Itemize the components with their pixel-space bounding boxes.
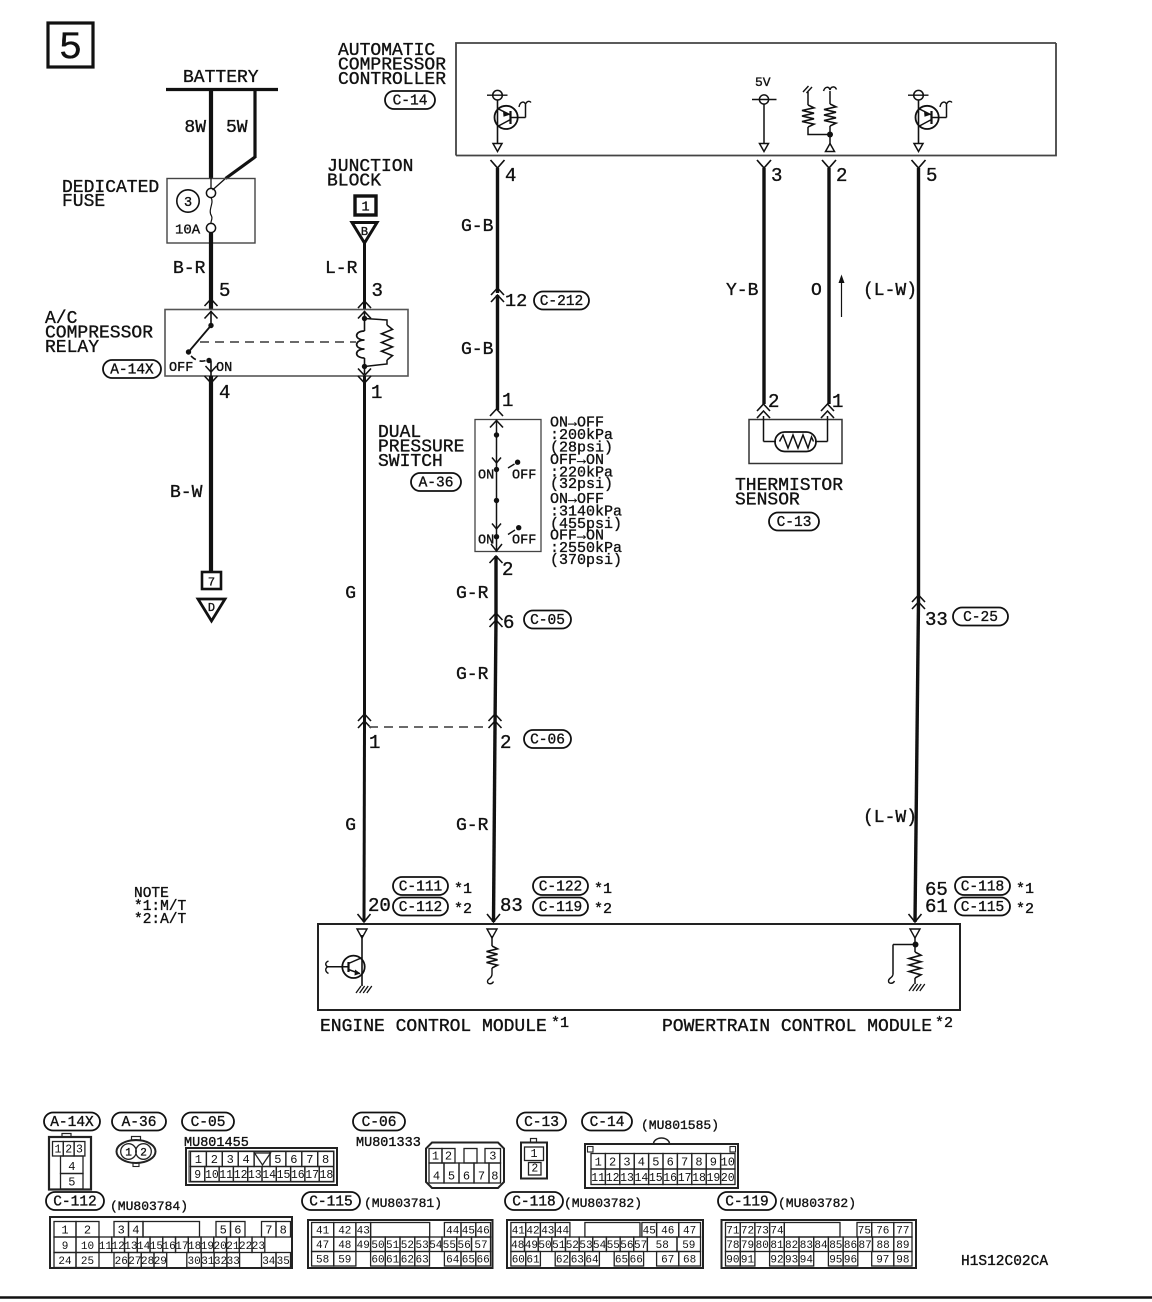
svg-text:8W: 8W	[184, 118, 206, 138]
svg-text:*1: *1	[551, 1015, 569, 1032]
controller pin 3	[757, 160, 782, 187]
svg-text:BLOCK: BLOCK	[327, 172, 381, 192]
svg-text:C-119: C-119	[539, 900, 583, 916]
svg-text:G-B: G-B	[461, 340, 494, 360]
svg-text:72: 72	[741, 1226, 754, 1238]
svg-text:6: 6	[463, 1170, 470, 1184]
svg-text:13: 13	[620, 1172, 634, 1185]
svg-text:2: 2	[445, 1150, 452, 1164]
svg-text:59: 59	[682, 1240, 695, 1252]
svg-text:4: 4	[242, 1153, 249, 1167]
legend C-13 connector	[521, 1139, 547, 1179]
svg-text:1: 1	[61, 1224, 68, 1238]
svg-text:C-06: C-06	[530, 733, 565, 749]
svg-text:78: 78	[726, 1240, 739, 1252]
svg-text:5: 5	[59, 26, 82, 70]
svg-text:53: 53	[579, 1240, 592, 1252]
svg-text:G-R: G-R	[456, 584, 489, 604]
legend C-14 connector	[585, 1138, 738, 1188]
A/C compressor relay A-14X	[45, 309, 153, 358]
svg-text:10: 10	[81, 1241, 94, 1253]
legend A-36 connector	[117, 1137, 156, 1167]
svg-text:12: 12	[234, 1169, 248, 1182]
svg-text:43: 43	[541, 1226, 554, 1238]
svg-text:B: B	[361, 225, 368, 239]
svg-text:3: 3	[76, 1144, 83, 1157]
svg-text:9: 9	[194, 1169, 201, 1182]
svg-text:61: 61	[526, 1255, 540, 1267]
svg-text:B-R: B-R	[173, 259, 206, 279]
svg-text:2: 2	[500, 732, 511, 754]
svg-text:5: 5	[219, 280, 230, 302]
svg-text:G-R: G-R	[456, 665, 489, 685]
svg-text:C-212: C-212	[540, 294, 584, 310]
svg-text:50: 50	[538, 1240, 551, 1252]
svg-text:30: 30	[187, 1256, 200, 1268]
ECM pin triangle (65/61)	[910, 929, 920, 938]
svg-text:20: 20	[368, 895, 391, 917]
svg-text:SENSOR: SENSOR	[735, 491, 800, 511]
svg-text:51: 51	[386, 1240, 400, 1252]
svg-text:13: 13	[248, 1169, 262, 1182]
svg-text:7: 7	[681, 1156, 688, 1170]
svg-text:15: 15	[150, 1241, 163, 1253]
controller output transistor (pin 4 driver)	[487, 90, 531, 151]
svg-text:57: 57	[474, 1240, 487, 1252]
ECM input resistor (pin 83)	[487, 936, 498, 984]
svg-text:54: 54	[429, 1240, 443, 1252]
relay box	[165, 310, 408, 377]
svg-text:13: 13	[124, 1241, 137, 1253]
svg-text:45: 45	[462, 1226, 475, 1238]
svg-text:6: 6	[667, 1156, 674, 1170]
thermistor sensor C-13	[749, 416, 842, 464]
svg-text:C-25: C-25	[963, 610, 998, 626]
legend C-06 connector	[426, 1143, 504, 1189]
svg-text:(L-W): (L-W)	[863, 281, 917, 301]
svg-text:3: 3	[372, 280, 383, 302]
svg-text:1: 1	[432, 1150, 439, 1164]
svg-text:82: 82	[785, 1240, 798, 1252]
svg-text:O: O	[811, 281, 822, 301]
svg-text:*2:A/T: *2:A/T	[134, 912, 187, 928]
connector label C-115 *2	[955, 898, 1034, 919]
node 1 on wire G (C-06 related)	[358, 714, 380, 754]
svg-text:58: 58	[316, 1255, 329, 1267]
legend C-05 part number	[184, 1136, 249, 1151]
svg-text:9: 9	[62, 1241, 69, 1253]
label C-13	[769, 513, 819, 532]
svg-text:C-05: C-05	[191, 1115, 226, 1131]
svg-text:2: 2	[768, 391, 779, 413]
svg-text:OFF: OFF	[169, 361, 193, 376]
svg-text:5: 5	[652, 1156, 659, 1170]
wire G relay to ECM pin 20	[345, 376, 364, 727]
controller pin 4	[491, 160, 517, 187]
svg-text:C-119: C-119	[725, 1195, 769, 1211]
svg-text:87: 87	[858, 1240, 871, 1252]
svg-text:ON: ON	[478, 534, 494, 549]
svg-text:ON: ON	[478, 469, 494, 484]
svg-text:5V: 5V	[755, 75, 771, 90]
svg-text:1: 1	[361, 201, 369, 216]
bottom border	[0, 1296, 1152, 1299]
svg-text:(370psi): (370psi)	[550, 552, 622, 569]
svg-text:51: 51	[552, 1240, 566, 1252]
wire B-W relay to ground	[170, 376, 211, 572]
svg-text:8: 8	[322, 1153, 329, 1167]
svg-text:50: 50	[371, 1240, 384, 1252]
svg-text:ENGINE CONTROL MODULE: ENGINE CONTROL MODULE	[320, 1017, 547, 1037]
svg-text:95: 95	[829, 1255, 842, 1267]
thermistor pin 1	[821, 391, 843, 418]
svg-text:49: 49	[525, 1240, 538, 1252]
svg-text:59: 59	[338, 1255, 351, 1267]
svg-text:8: 8	[491, 1170, 498, 1184]
svg-text:80: 80	[756, 1240, 769, 1252]
svg-text:48: 48	[338, 1240, 351, 1252]
page index 5	[48, 23, 93, 70]
legend C-112 connector	[50, 1217, 292, 1268]
svg-text:65: 65	[615, 1255, 628, 1267]
legend C-119 connector	[722, 1220, 917, 1268]
svg-text:85: 85	[829, 1240, 842, 1252]
svg-text:B-W: B-W	[170, 483, 203, 503]
svg-text:1: 1	[369, 732, 380, 754]
svg-text:*1: *1	[454, 881, 472, 898]
relay coil parallel resistor	[365, 319, 393, 367]
svg-text:20: 20	[213, 1241, 226, 1253]
relay dashed actuation line	[200, 341, 356, 343]
svg-text:G-R: G-R	[456, 816, 489, 836]
svg-text:C-05: C-05	[530, 613, 565, 629]
svg-text:18: 18	[188, 1241, 201, 1253]
svg-text:41: 41	[512, 1226, 526, 1238]
svg-text:26: 26	[115, 1256, 128, 1268]
svg-text:3: 3	[227, 1153, 234, 1167]
svg-text:15: 15	[277, 1169, 291, 1182]
svg-text:97: 97	[876, 1255, 889, 1267]
wire G-B lower	[461, 295, 498, 410]
svg-text:(MU803781): (MU803781)	[364, 1196, 442, 1211]
svg-text:81: 81	[770, 1240, 784, 1252]
svg-text:18: 18	[319, 1169, 333, 1182]
svg-text:A-36: A-36	[419, 476, 454, 492]
svg-text:29: 29	[154, 1256, 167, 1268]
svg-text:32: 32	[214, 1256, 227, 1268]
svg-text:46: 46	[476, 1226, 489, 1238]
svg-text:20: 20	[721, 1172, 735, 1185]
svg-text:5: 5	[68, 1176, 75, 1190]
svg-text:A-36: A-36	[122, 1115, 157, 1131]
svg-text:21: 21	[226, 1241, 240, 1253]
ECM thermistor input network	[889, 938, 925, 991]
svg-text:(L-W): (L-W)	[863, 808, 917, 828]
automatic compressor controller C-14 label	[338, 41, 446, 90]
svg-text:4: 4	[638, 1156, 645, 1170]
svg-text:*1: *1	[594, 881, 612, 898]
svg-text:3: 3	[489, 1150, 496, 1164]
wire Y-B	[726, 168, 764, 404]
svg-text:33: 33	[925, 609, 948, 631]
svg-text:25: 25	[81, 1256, 94, 1268]
svg-text:3: 3	[623, 1156, 630, 1170]
relay switch contact	[169, 311, 232, 376]
dedicated fuse F3 10A	[62, 178, 255, 243]
svg-text:4: 4	[132, 1224, 139, 1238]
label C-14	[385, 91, 435, 110]
svg-text:3: 3	[771, 165, 782, 187]
controller output transistor (pin 5 driver)	[908, 90, 952, 151]
legend C-119 label	[718, 1192, 776, 1211]
svg-text:6: 6	[290, 1153, 297, 1167]
legend C-06 part number	[356, 1136, 421, 1151]
svg-text:1: 1	[530, 1147, 537, 1161]
svg-text:(MU803782): (MU803782)	[778, 1196, 856, 1211]
svg-text:12: 12	[505, 291, 527, 312]
svg-text:68: 68	[683, 1255, 696, 1267]
connector label C-118 *1	[955, 877, 1034, 898]
svg-text:*2: *2	[454, 901, 472, 918]
legend C-13 label	[517, 1113, 566, 1132]
svg-text:66: 66	[630, 1255, 643, 1267]
svg-text:4: 4	[219, 382, 230, 404]
svg-text:23: 23	[252, 1241, 265, 1253]
legend C-115 connector	[308, 1220, 493, 1268]
svg-text:3: 3	[184, 196, 192, 211]
svg-text:1: 1	[502, 390, 513, 412]
svg-text:49: 49	[357, 1240, 370, 1252]
svg-text:1: 1	[832, 391, 843, 413]
svg-text:C-115: C-115	[309, 1195, 353, 1211]
svg-text:17: 17	[305, 1169, 319, 1182]
svg-text:CONTROLLER: CONTROLLER	[338, 70, 446, 90]
engine control module box	[318, 924, 960, 1010]
legend C-112 label	[46, 1192, 104, 1211]
svg-text:11: 11	[219, 1169, 233, 1182]
ECM pin 20 label	[368, 895, 391, 917]
svg-text:8: 8	[280, 1224, 287, 1238]
ground terminal 7	[202, 572, 221, 590]
svg-text:*2: *2	[594, 901, 612, 918]
junction block	[327, 157, 413, 243]
svg-text:1: 1	[195, 1153, 202, 1167]
svg-text:28: 28	[141, 1256, 154, 1268]
svg-text:C-13: C-13	[524, 1115, 559, 1131]
svg-text:G: G	[345, 584, 356, 604]
thermistor pin 2	[757, 391, 779, 418]
svg-text:H1S12C02CA: H1S12C02CA	[961, 1254, 1048, 1270]
legend C-14 part number	[641, 1118, 719, 1133]
controller pin 5	[912, 160, 938, 187]
relay pin 1	[358, 369, 382, 405]
svg-text:91: 91	[741, 1255, 755, 1267]
svg-text:93: 93	[785, 1255, 798, 1267]
svg-text:C-115: C-115	[961, 900, 1005, 916]
ECM / PCM caption	[320, 1015, 953, 1037]
svg-text:10A: 10A	[175, 223, 201, 239]
svg-text:60: 60	[512, 1255, 525, 1267]
ECM pin triangle (20)	[357, 929, 367, 938]
svg-text:24: 24	[58, 1256, 72, 1268]
svg-text:(MU803782): (MU803782)	[564, 1196, 642, 1211]
svg-text:15: 15	[649, 1172, 663, 1185]
svg-text:88: 88	[876, 1240, 889, 1252]
legend C-115 label	[302, 1192, 360, 1211]
wire O	[811, 168, 829, 404]
svg-text:66: 66	[476, 1255, 489, 1267]
svg-text:2: 2	[84, 1224, 91, 1238]
svg-text:19: 19	[706, 1172, 720, 1185]
svg-text:83: 83	[800, 1240, 813, 1252]
svg-text:48: 48	[511, 1240, 524, 1252]
svg-text:64: 64	[446, 1255, 460, 1267]
svg-text:55: 55	[607, 1240, 620, 1252]
svg-text:2: 2	[609, 1156, 616, 1170]
svg-text:1: 1	[371, 382, 382, 404]
svg-text:75: 75	[858, 1226, 871, 1238]
svg-text:77: 77	[896, 1226, 909, 1238]
svg-text:54: 54	[593, 1240, 607, 1252]
svg-text:62: 62	[556, 1255, 569, 1267]
wire G lower segment	[345, 727, 370, 922]
svg-text:79: 79	[741, 1240, 754, 1252]
svg-text:RELAY: RELAY	[45, 338, 99, 358]
legend C-115 part number	[364, 1196, 442, 1211]
svg-text:10: 10	[721, 1156, 735, 1170]
svg-text:C-13: C-13	[777, 515, 812, 531]
wire L-R junction block to relay	[325, 243, 383, 309]
svg-text:14: 14	[262, 1169, 276, 1182]
svg-text:5: 5	[448, 1170, 455, 1184]
svg-text:5: 5	[274, 1153, 281, 1167]
svg-text:74: 74	[770, 1226, 784, 1238]
svg-text:83: 83	[500, 895, 523, 917]
controller pull-up resistor (left)	[802, 86, 830, 135]
svg-text:45: 45	[643, 1226, 656, 1238]
controller 5V supply	[752, 75, 777, 152]
svg-text:7: 7	[478, 1170, 485, 1184]
legend C-118 part number	[564, 1196, 642, 1211]
controller pin 2	[822, 160, 847, 187]
wire B-R fuse to relay	[173, 233, 230, 309]
svg-text:12: 12	[606, 1172, 620, 1185]
svg-text:92: 92	[770, 1255, 783, 1267]
legend C-112 part number	[110, 1199, 188, 1214]
svg-text:1: 1	[54, 1144, 61, 1157]
relay label A-14X	[103, 360, 161, 379]
svg-text:4: 4	[68, 1160, 75, 1174]
wire L-W lower	[863, 601, 922, 922]
svg-text:56: 56	[620, 1240, 633, 1252]
svg-text:27: 27	[128, 1256, 141, 1268]
legend C-05 label	[182, 1113, 234, 1132]
inline connector 12 C-212	[491, 288, 589, 312]
svg-text:63: 63	[415, 1255, 428, 1267]
legend C-118 connector	[507, 1220, 703, 1268]
legend C-14 label	[582, 1113, 632, 1132]
svg-text:C-118: C-118	[512, 1195, 556, 1211]
svg-text:2: 2	[140, 1148, 147, 1160]
svg-text:SWITCH: SWITCH	[378, 452, 443, 472]
svg-text:60: 60	[371, 1255, 384, 1267]
label A-36	[411, 473, 461, 492]
svg-text:52: 52	[401, 1240, 414, 1252]
drawing number	[961, 1254, 1048, 1270]
connector label C-111 *1	[393, 877, 472, 898]
svg-text:11: 11	[99, 1241, 113, 1253]
svg-text:76: 76	[876, 1226, 889, 1238]
svg-text:34: 34	[262, 1256, 276, 1268]
wire G-R lower	[456, 727, 500, 922]
svg-text:1: 1	[595, 1156, 602, 1170]
svg-text:2: 2	[502, 559, 513, 581]
svg-text:46: 46	[661, 1226, 674, 1238]
battery	[166, 68, 278, 90]
controller pull-up resistor (right)	[824, 87, 837, 152]
svg-text:OFF: OFF	[512, 534, 536, 549]
svg-text:C-111: C-111	[399, 880, 443, 896]
svg-text:C-06: C-06	[362, 1115, 397, 1131]
legend A-36 label	[112, 1113, 166, 1132]
dual pressure switch pin 2	[490, 556, 514, 581]
svg-text:OFF: OFF	[512, 469, 536, 484]
svg-text:MU801333: MU801333	[356, 1136, 421, 1151]
svg-text:5: 5	[220, 1224, 227, 1238]
svg-text:67: 67	[661, 1255, 674, 1267]
svg-text:ON: ON	[216, 361, 232, 376]
svg-text:10: 10	[205, 1169, 219, 1182]
svg-text:3: 3	[118, 1224, 125, 1238]
svg-text:2: 2	[211, 1153, 218, 1167]
svg-text:4: 4	[433, 1170, 440, 1184]
svg-text:FUSE: FUSE	[62, 192, 105, 212]
svg-text:2: 2	[531, 1163, 538, 1176]
svg-text:A-14X: A-14X	[110, 363, 154, 379]
legend C-05 connector	[186, 1148, 337, 1185]
svg-text:47: 47	[683, 1226, 696, 1238]
svg-text:A-14X: A-14X	[50, 1115, 94, 1131]
svg-text:61: 61	[925, 896, 948, 918]
current direction arrow	[839, 275, 845, 318]
wire G-R middle	[456, 620, 496, 727]
svg-text:58: 58	[656, 1240, 669, 1252]
svg-text:16: 16	[291, 1169, 305, 1182]
svg-text:9: 9	[710, 1156, 717, 1170]
svg-text:96: 96	[844, 1255, 857, 1267]
pressure switch thresholds text	[550, 414, 622, 569]
svg-text:Y-B: Y-B	[726, 281, 759, 301]
inline connector 33 C-25	[912, 595, 1008, 631]
svg-text:98: 98	[896, 1255, 909, 1267]
svg-text:33: 33	[227, 1256, 240, 1268]
wire L-W upper	[863, 168, 919, 601]
svg-text:94: 94	[800, 1255, 814, 1267]
svg-text:42: 42	[526, 1226, 539, 1238]
svg-text:90: 90	[726, 1255, 739, 1267]
svg-text:12: 12	[111, 1241, 124, 1253]
svg-text:C-112: C-112	[399, 900, 443, 916]
dual pressure switch A-36	[378, 423, 464, 472]
svg-text:14: 14	[137, 1241, 151, 1253]
svg-text:C-118: C-118	[961, 880, 1005, 896]
connector label C-119 *2	[533, 898, 612, 919]
svg-text:C-14: C-14	[393, 94, 428, 110]
svg-text:C-112: C-112	[53, 1195, 97, 1211]
ECM pin 83 label	[500, 895, 523, 917]
svg-text:7: 7	[208, 576, 215, 590]
relay pin 4	[205, 376, 231, 404]
